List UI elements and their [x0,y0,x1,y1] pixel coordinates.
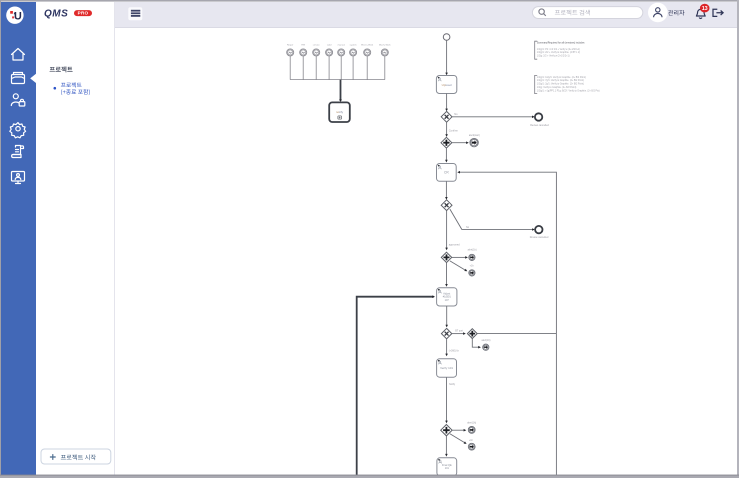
hamburger [128,7,142,20]
wire gw1-end1 [452,116,534,118]
badge 13 [700,4,710,13]
gateway G7 parallel [441,425,452,436]
end event E2 [535,226,542,233]
task notify [329,102,350,122]
svg-text:13: 13 [702,6,708,12]
notch arrow [30,74,36,83]
task Upload [436,76,456,94]
icon projects folder (active) [12,73,25,84]
wire gw2-event [452,142,468,144]
gateway G6 parallel [467,329,477,339]
wire gw4-event3 diagonal [450,261,466,271]
annotation bracket 1 [535,41,538,59]
event alert3 [483,344,489,350]
annotation bracket 2 [535,75,538,93]
wire gw2-CR [445,148,447,161]
search box [532,7,642,19]
wire gw5-task4 [446,339,448,355]
search placeholder [555,10,590,16]
icon monitor-user [12,172,25,184]
menu link line1 [61,82,82,87]
gateway G4 parallel [441,252,451,262]
event alert2 [469,254,475,260]
boundary events cluster [287,44,294,56]
wire cluster drop lines [289,56,291,80]
wire gw7-task5 [445,436,447,456]
user icon [648,3,668,23]
wire gw6-event4 [472,339,480,348]
user name [668,10,684,16]
wire gw5-gw6 [452,333,465,335]
icon home [12,49,25,61]
icon scroll [12,146,24,158]
end event E1 [535,113,542,120]
icon gear [10,123,26,138]
svg-text:U: U [14,11,22,23]
wire gw4-task3 [446,263,448,286]
wire feedback right to CR [458,172,556,333]
logo U circle [6,7,23,24]
wire cluster bus [290,79,385,81]
logout [713,9,723,16]
task verify [437,359,457,378]
event alert1 [470,138,478,146]
wire gw4-event2 [452,256,467,258]
wire task4-gw7 [446,377,448,422]
task CR [437,164,457,182]
wire task3-gw5 [446,306,448,326]
icon user-lock [11,94,25,106]
button start project [41,449,111,464]
wire trunk to notify [340,80,342,101]
wire right vertical lower [555,334,557,476]
wire gw3-gw4 [446,211,448,250]
event plus1h2 [468,443,475,450]
gateway G5 exclusive [441,328,451,338]
svg-text:PRO: PRO [78,11,89,16]
wire CR-gw3 [445,181,447,198]
task adjust [437,288,457,306]
gateway G3 exclusive [441,200,452,211]
wire gw7-event5 [452,429,465,431]
start event [443,34,450,41]
event alert4 [468,427,475,434]
wire feedback left thick [357,297,434,476]
svg-text:QMS: QMS [44,9,68,20]
wire gw7-event6 diagonal [450,434,466,444]
wire gw1-gw2 [446,122,448,136]
wire gw3-end2 [450,209,534,229]
wire start-upload [446,40,448,74]
gateway G2 parallel [441,137,452,148]
menu link line2 [61,89,90,95]
menu section label [50,66,73,72]
task final [437,458,457,476]
bell [697,9,706,18]
window border [0,0,739,2]
event plus1h [469,270,475,276]
gateway G1 exclusive [441,111,452,122]
menu bullet [54,87,57,90]
wire gw6-right vertical [477,333,556,335]
wire upload-gw1 [446,94,448,111]
